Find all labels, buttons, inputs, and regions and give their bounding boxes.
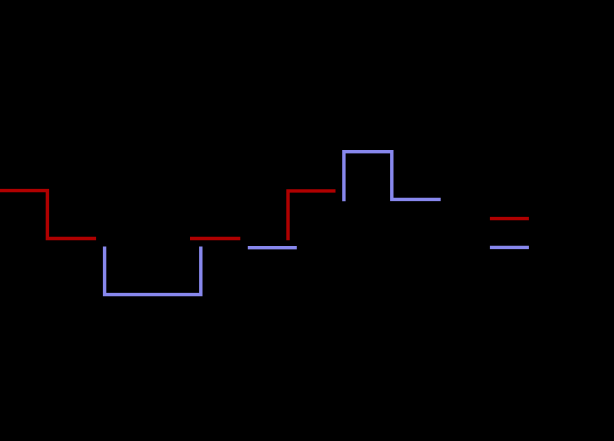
red waveform: detached low segment (192, 237, 239, 240)
red waveform: step up then high segment (288, 191, 334, 239)
blue legend sample line (492, 246, 528, 249)
blue waveform: pulse up, top, down and settle right (344, 152, 439, 200)
blue waveform: U-shaped dip (105, 248, 201, 294)
blue waveform: detached mid segment (250, 246, 296, 249)
red legend sample line (492, 217, 528, 220)
red waveform: high segment then step down to low (0, 191, 94, 239)
